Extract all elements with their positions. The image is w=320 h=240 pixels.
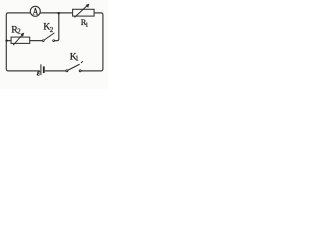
svg-text:ε: ε [37,68,41,78]
svg-text:A: A [33,6,39,17]
svg-text:1: 1 [85,22,88,28]
svg-text:1: 1 [75,56,78,63]
svg-text:2: 2 [50,26,54,34]
svg-text:2: 2 [17,29,21,36]
